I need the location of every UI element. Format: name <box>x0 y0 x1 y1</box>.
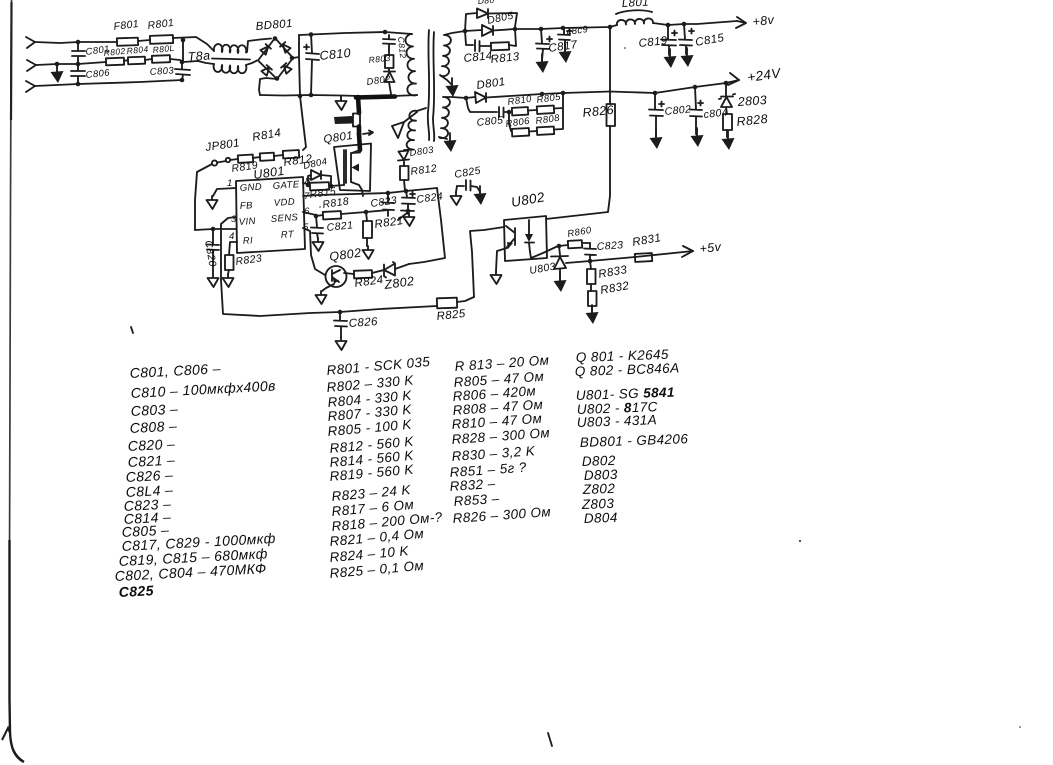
svg-text:C803: C803 <box>149 65 174 78</box>
svg-text:R803: R803 <box>368 53 391 65</box>
bridge diode 2 <box>280 42 291 53</box>
svg-text:4: 4 <box>229 231 235 242</box>
svg-text:R804: R804 <box>126 44 149 56</box>
svg-text:R826: R826 <box>582 103 615 120</box>
column 4 semiconductors <box>575 347 689 526</box>
resistor R812 (startup chain) <box>274 155 283 156</box>
resistor R812 (aux) <box>400 166 409 180</box>
node A <box>463 29 468 34</box>
wire bridge minus hook <box>259 78 277 95</box>
svg-text:RT: RT <box>280 229 295 241</box>
node startup chain tap <box>298 94 303 99</box>
24V rail <box>563 80 739 93</box>
mosfet internals <box>344 150 360 183</box>
AC input prong 2 <box>27 60 36 71</box>
aux open arrow <box>404 112 417 122</box>
svg-text:GATE: GATE <box>272 179 300 192</box>
node C817 <box>539 27 544 32</box>
capacitor C823 <box>584 243 596 261</box>
svg-text:JP801: JP801 <box>204 137 241 154</box>
page edge artifact line <box>10 0 24 762</box>
svg-text:R833: R833 <box>597 264 628 281</box>
capacitor C817 <box>536 29 549 60</box>
capacitor C819 <box>661 25 676 55</box>
node C804 <box>693 85 698 90</box>
wire top input <box>35 42 117 43</box>
node mid-C801 <box>76 62 81 67</box>
svg-text:C825: C825 <box>118 582 154 600</box>
misc small marks <box>131 327 133 333</box>
resistor R819 <box>230 159 238 160</box>
svg-text:C823: C823 <box>596 239 623 253</box>
core lines <box>428 30 429 140</box>
diode D803 <box>398 150 413 167</box>
svg-text:R860: R860 <box>567 225 593 240</box>
svg-text:BD801: BD801 <box>255 18 293 33</box>
svg-text:R831: R831 <box>631 232 662 249</box>
svg-text:R801 - SCK 035: R801 - SCK 035 <box>326 354 431 378</box>
+8V arrow <box>736 17 746 28</box>
svg-text:Z802: Z802 <box>582 481 616 497</box>
resistor R860 <box>559 245 568 246</box>
svg-text:U803 - 431A: U803 - 431A <box>577 412 658 430</box>
node B <box>513 27 518 32</box>
capacitor C804 <box>690 87 702 134</box>
choke bottom winding <box>214 64 247 73</box>
resistor R824 <box>354 270 372 278</box>
resistor R814 <box>253 157 260 158</box>
node C803 bottom <box>180 78 185 83</box>
svg-text:C825: C825 <box>453 164 481 180</box>
ground C817 <box>536 54 549 73</box>
ground C8C9 <box>559 44 572 63</box>
wire R801 to choke top <box>173 37 214 51</box>
capacitor C802 <box>649 93 663 136</box>
node Z803 <box>724 81 729 86</box>
svg-text:C806: C806 <box>85 67 111 81</box>
node top-C801 <box>76 40 81 45</box>
shunt U803 <box>551 246 568 279</box>
node rail R833 <box>588 259 593 264</box>
node top link <box>181 38 186 43</box>
wire middle input <box>36 62 106 65</box>
ground sec bottom filled <box>444 133 457 152</box>
column 1 capacitors <box>114 360 276 600</box>
5V rail <box>566 251 693 263</box>
svg-text:R823: R823 <box>235 252 263 268</box>
svg-text:U803: U803 <box>528 260 556 276</box>
resistor R803 <box>385 55 394 68</box>
svg-text:R812: R812 <box>410 162 438 178</box>
thick drain bus <box>356 97 395 98</box>
resistor R815 <box>308 185 310 186</box>
resistor R810 <box>512 107 528 115</box>
resistor R805 <box>537 106 554 114</box>
svg-text:R80L: R80L <box>152 43 175 55</box>
snubber C805 network <box>466 98 497 112</box>
svg-text:C810 – 100мкфх400в: C810 – 100мкфх400в <box>130 377 276 401</box>
svg-text:R813: R813 <box>490 51 520 66</box>
VIN line <box>195 229 236 230</box>
secondary winding top <box>441 35 451 76</box>
wire R807 to node <box>170 59 183 62</box>
svg-text:R801: R801 <box>147 17 175 32</box>
svg-text:+5v: +5v <box>699 240 722 256</box>
node snubber rail <box>561 91 566 96</box>
svg-text:VDD: VDD <box>273 197 295 209</box>
capacitor C8C9 <box>558 28 570 50</box>
svg-text:FB: FB <box>239 200 253 212</box>
bridge diamond <box>258 38 293 79</box>
ground C815 <box>681 48 694 67</box>
capacitor C810 <box>306 34 319 95</box>
primary ground open <box>336 97 347 110</box>
svg-text:C815: C815 <box>694 32 725 49</box>
svg-text:3: 3 <box>231 214 237 225</box>
capacitor C812 (snubber) <box>383 35 395 55</box>
pin1 GND wire <box>213 188 236 196</box>
svg-text:SENS: SENS <box>270 212 298 225</box>
svg-text:c8c9: c8c9 <box>566 24 589 38</box>
primary winding <box>405 34 417 95</box>
choke top winding <box>214 44 246 53</box>
wire bridge plus to vertical <box>293 57 299 58</box>
bridge diode 4 <box>281 63 292 74</box>
svg-text:C819: C819 <box>638 35 668 50</box>
svg-text:D803: D803 <box>409 145 435 159</box>
svg-text:R808: R808 <box>535 113 561 127</box>
resistor R804 <box>128 57 145 65</box>
wire R826 to U802 <box>546 126 610 219</box>
svg-text:Q 802 - BC846A: Q 802 - BC846A <box>575 360 680 379</box>
wire R804-R807 <box>145 59 152 60</box>
ground R828 <box>722 131 735 150</box>
node snubber top <box>383 30 388 35</box>
svg-text:D805: D805 <box>486 10 515 27</box>
diode D804 top branch <box>465 9 517 32</box>
svg-text:VIN: VIN <box>238 216 256 228</box>
capacitor C801 <box>72 42 85 64</box>
svg-text:C801, C806 –: C801, C806 – <box>129 360 221 381</box>
svg-text:R805: R805 <box>536 92 562 106</box>
AC input prong 3 <box>26 81 35 92</box>
FB wire to bottom loop <box>221 217 437 316</box>
resistor R823 <box>225 255 234 270</box>
svg-text:R825: R825 <box>436 308 466 323</box>
svg-text:C805: C805 <box>476 114 504 129</box>
diode D805 mid branch <box>465 25 515 36</box>
svg-text:U802: U802 <box>510 189 546 210</box>
node R860 <box>557 244 562 249</box>
transistor Q802 <box>326 266 347 287</box>
node R826 top <box>608 25 613 30</box>
svg-text:R818: R818 <box>322 195 350 211</box>
svg-text:2803: 2803 <box>736 93 767 109</box>
diode D802 <box>384 68 395 94</box>
big loop right edge <box>409 188 445 264</box>
svg-text:D801: D801 <box>476 76 506 92</box>
Q802 emitter ground <box>322 284 334 291</box>
vertical DC plus <box>299 35 300 96</box>
svg-text:R810: R810 <box>507 94 533 108</box>
diode D801 <box>466 92 563 103</box>
svg-text:C810: C810 <box>319 46 352 63</box>
inductor L801 <box>617 18 653 25</box>
resistor R811 <box>353 114 360 127</box>
bridge diode 1 <box>260 44 271 55</box>
svg-text:R832: R832 <box>599 280 630 297</box>
capacitor C823 (VDD) <box>382 193 394 216</box>
zener Z803 <box>719 83 735 114</box>
svg-text:R828: R828 <box>736 112 769 129</box>
secondary winding bottom <box>440 97 450 138</box>
svg-text:C808 –: C808 – <box>129 418 177 436</box>
resistor R821 <box>366 212 367 221</box>
wire R802-R804 <box>124 60 128 61</box>
node C819 <box>666 23 671 28</box>
U801 box <box>236 177 305 253</box>
resistor R825 <box>437 298 457 309</box>
svg-text:T8a: T8a <box>187 48 211 64</box>
svg-text:R821: R821 <box>374 215 404 231</box>
svg-text:GND: GND <box>239 181 262 194</box>
SENS line R818 <box>303 212 316 215</box>
wire JP801 down to VIN <box>195 164 212 230</box>
svg-text:C820: C820 <box>202 239 218 267</box>
svg-text:R814: R814 <box>251 127 282 144</box>
svg-text:C814: C814 <box>463 50 493 65</box>
node mid-earth <box>55 62 60 67</box>
phototransistor <box>506 226 515 247</box>
node bottom-C806 <box>76 82 81 87</box>
diode D804g <box>308 170 331 186</box>
fuse F801 <box>117 38 138 46</box>
8V rail <box>515 25 617 29</box>
svg-text:C821: C821 <box>326 219 354 234</box>
capacitor C805 <box>499 107 509 118</box>
resistor R832 <box>590 284 592 291</box>
resistor R808 <box>537 127 554 135</box>
ground earth filled <box>51 64 64 83</box>
choke core bar <box>212 59 250 60</box>
svg-text:D80: D80 <box>477 0 494 6</box>
aux winding <box>407 108 426 150</box>
wire choke to bridge top vertex <box>247 39 271 53</box>
resistor R828 <box>723 114 732 130</box>
svg-text:L801: L801 <box>622 0 650 10</box>
wire U802 emitter to ground <box>496 248 507 271</box>
snubber branch C814 R813 <box>465 31 491 52</box>
resistor R833 <box>590 261 591 269</box>
wire U802 collector out left <box>470 227 504 297</box>
svg-text:Q802: Q802 <box>328 246 362 264</box>
wire mid node to choke bottom <box>183 61 214 64</box>
ground C819 <box>664 49 677 68</box>
svg-text:F801: F801 <box>113 18 140 33</box>
top DC rail to transformer <box>299 32 412 35</box>
bridge diode 3 <box>261 65 272 76</box>
svg-text:+8v: +8v <box>752 13 775 29</box>
resistor R826 <box>607 104 616 126</box>
svg-text:BD801 - GB4206: BD801 - GB4206 <box>580 431 689 450</box>
node C815 <box>682 22 687 27</box>
node C810 bottom <box>309 93 314 98</box>
capacitor C815 <box>679 24 692 54</box>
capacitor C803 <box>175 62 190 80</box>
+5V arrow <box>682 246 693 257</box>
node C810 top <box>309 32 314 37</box>
resistor R806 <box>509 112 511 131</box>
zener Z802 <box>384 262 395 278</box>
svg-text:D804: D804 <box>584 510 618 526</box>
wire R826 vertical <box>609 27 611 104</box>
wire LED cathode to node <box>530 246 558 258</box>
AC input prong 1 <box>26 37 35 48</box>
node after D801 <box>540 92 545 97</box>
resistor R807 <box>152 55 170 63</box>
svg-text:R853 –: R853 – <box>453 491 500 509</box>
RI pin wire <box>229 242 237 255</box>
wire L801 to caps <box>653 21 737 25</box>
node D801 anode <box>464 96 469 101</box>
svg-text:Q801: Q801 <box>323 130 354 146</box>
ground sec top filled <box>446 78 459 97</box>
capacitor C820 <box>207 229 219 274</box>
LED <box>525 220 534 252</box>
capacitor C826 <box>334 312 347 337</box>
Q802 collector to R824 <box>344 273 354 274</box>
wire choke to bridge left vertex <box>246 61 257 66</box>
resistor R818 <box>323 211 341 219</box>
resistor R801 <box>150 35 173 44</box>
wire bottom input <box>35 80 182 86</box>
svg-text:+24V: +24V <box>746 65 783 85</box>
node Vo <box>357 132 362 137</box>
svg-text:Z802: Z802 <box>382 274 415 292</box>
node C8C9 <box>561 26 566 31</box>
svg-text:C802: C802 <box>664 103 692 118</box>
column 3 resistors <box>449 352 551 526</box>
capacitor C824 <box>401 191 415 211</box>
optocoupler box <box>504 216 547 261</box>
ground C804 <box>691 128 704 147</box>
column 2 resistors <box>326 354 443 581</box>
ground U803 <box>554 273 567 292</box>
vertical link top wire to mid node <box>182 40 184 62</box>
ground C802 <box>650 130 663 149</box>
resistor R802 <box>106 58 124 66</box>
svg-text:C823: C823 <box>370 194 398 210</box>
ground R832 <box>586 305 599 324</box>
jumper circles <box>212 160 217 165</box>
resistor R831 <box>635 253 652 262</box>
node C802 <box>653 91 658 96</box>
svg-text:R824: R824 <box>354 274 384 290</box>
+24V arrow <box>728 73 739 85</box>
node snubber split <box>507 110 512 115</box>
svg-text:C826: C826 <box>348 316 378 330</box>
svg-text:C803 –: C803 – <box>130 401 178 419</box>
svg-text:RI: RI <box>242 235 253 247</box>
wire F801-R801 <box>138 40 150 41</box>
mosfet box <box>334 144 371 192</box>
capacitor C821 <box>311 216 323 239</box>
capacitor C806 <box>71 64 85 84</box>
node C803 top <box>180 60 185 65</box>
svg-text:D802: D802 <box>366 74 392 88</box>
bottom DC rail <box>260 95 360 96</box>
svg-text:R802: R802 <box>103 46 126 58</box>
